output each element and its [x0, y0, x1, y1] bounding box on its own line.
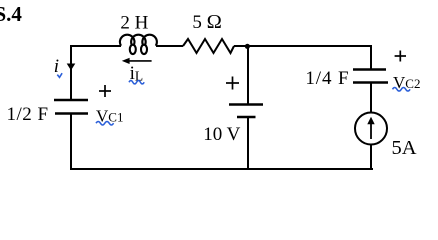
svg-text:5A: 5A — [392, 137, 417, 159]
svg-text:5 Ω: 5 Ω — [192, 11, 222, 33]
inductor current arrow (left) — [126, 60, 152, 62]
wire left lower vertical — [70, 114, 72, 170]
wire middle vertical upper — [247, 46, 249, 104]
svg-text:2 H: 2 H — [120, 12, 148, 33]
plus sign C1 — [99, 85, 111, 97]
svg-text:1/4 F: 1/4 F — [305, 68, 349, 89]
svg-text:i: i — [54, 56, 59, 77]
wire top-left horizontal — [71, 45, 121, 47]
wire left vertical — [70, 45, 72, 100]
wire right vertical upper — [370, 45, 372, 70]
plus sign source V1 — [226, 77, 239, 90]
squiggle under VC1 — [96, 121, 114, 125]
capacitor C1 plates — [54, 99, 88, 101]
node junction dot — [245, 44, 250, 49]
wire resistor to right corner — [234, 45, 371, 47]
svg-text:10 V: 10 V — [203, 124, 240, 145]
current arrow i (down) — [67, 64, 76, 71]
inductor L1 2H — [120, 35, 157, 54]
squiggle under i — [57, 73, 62, 77]
wire between inductor and resistor — [156, 45, 183, 47]
plus sign C2 — [395, 51, 406, 62]
squiggle under iL — [129, 81, 144, 84]
resistor R1 5ohm — [183, 39, 234, 53]
svg-text:1/2 F: 1/2 F — [7, 104, 49, 125]
current source arrow up — [370, 120, 372, 139]
wire right vertical lower — [370, 145, 372, 171]
battery V1 plates — [229, 103, 263, 105]
squiggle under VC2 — [393, 88, 411, 92]
wire middle vertical lower — [247, 117, 249, 169]
bottom wire — [70, 168, 373, 170]
current source I1 circle — [355, 113, 387, 145]
wire right vertical mid — [370, 83, 372, 113]
capacitor C2 plates — [353, 68, 386, 70]
svg-text:S.4: S.4 — [0, 2, 22, 26]
